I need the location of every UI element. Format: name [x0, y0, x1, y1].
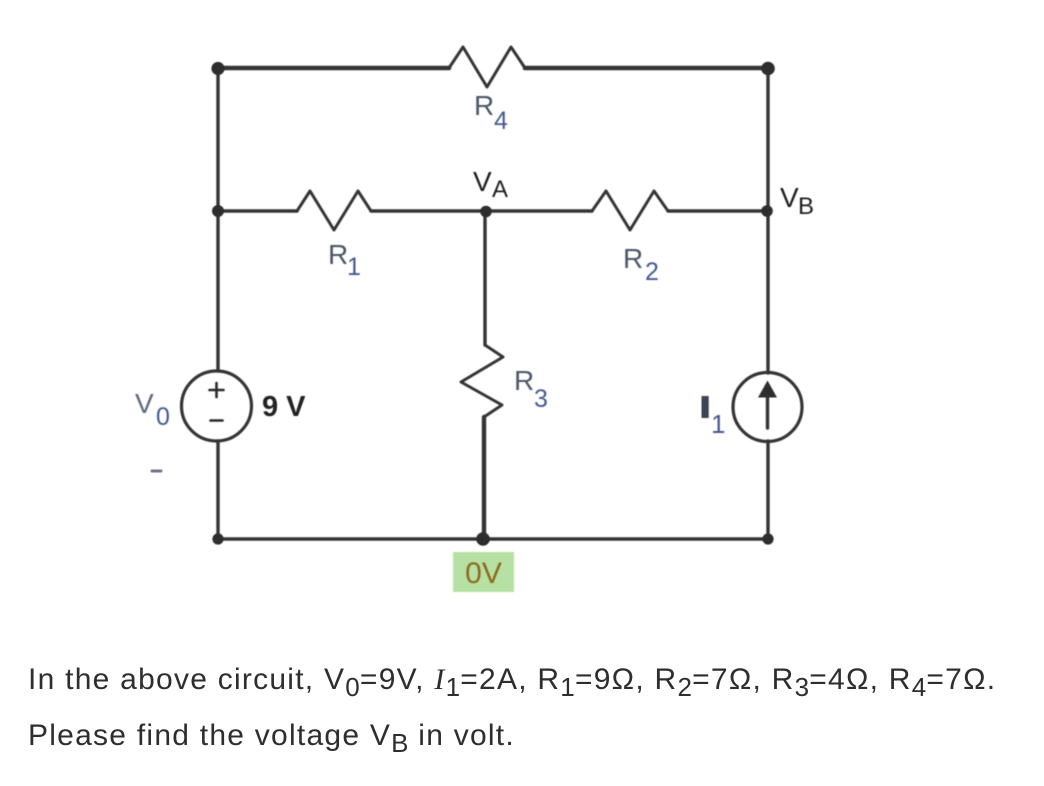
node middle-left	[212, 205, 224, 217]
svg-text:A: A	[492, 176, 508, 203]
svg-text:9 V: 9 V	[262, 391, 306, 423]
svg-text:2: 2	[645, 258, 659, 286]
svg-text:R: R	[474, 90, 494, 121]
label node VA	[473, 166, 508, 203]
current source I1 arrow shaft	[766, 396, 769, 428]
svg-text:B: B	[798, 193, 814, 220]
resistor R3	[461, 345, 503, 417]
node bottom-center	[476, 532, 490, 546]
svg-text:0V: 0V	[465, 557, 502, 590]
svg-text:R: R	[328, 239, 348, 270]
svg-text:0: 0	[156, 403, 170, 431]
external minus mark below V0 label	[152, 470, 161, 473]
resistor R2	[592, 191, 668, 230]
svg-text:3: 3	[534, 385, 548, 413]
node A	[480, 206, 492, 218]
svg-text:1: 1	[347, 253, 361, 281]
wire top rail right segment	[525, 66, 768, 71]
wire R3 to bottom	[482, 417, 486, 539]
plus sign of V0	[210, 383, 224, 397]
svg-text:R: R	[514, 365, 534, 396]
label R2	[623, 243, 659, 286]
label R3	[514, 365, 548, 413]
wire top rail left segment	[218, 66, 449, 71]
label I1	[702, 396, 726, 439]
minus sign of V0	[211, 419, 223, 422]
wire left vertical lower	[216, 441, 219, 539]
node bottom-right	[762, 533, 773, 544]
svg-text:1: 1	[711, 409, 725, 439]
svg-text:R: R	[623, 243, 643, 274]
label V0	[135, 388, 170, 431]
wire right vertical upper	[766, 68, 769, 373]
label R4	[474, 90, 508, 135]
wire VA to R3	[483, 211, 486, 345]
svg-text:4: 4	[494, 107, 508, 135]
svg-text:V: V	[780, 182, 799, 213]
resistor R1	[297, 191, 371, 230]
resistor R4	[449, 47, 525, 87]
node bottom-left	[212, 533, 223, 544]
wire middle rail left segment	[218, 209, 297, 212]
node 0V ground label	[453, 552, 514, 592]
wire middle rail right segment	[668, 209, 768, 212]
voltage source V0 circle	[182, 371, 252, 441]
node top-right	[761, 62, 775, 76]
current source I1 circle	[733, 373, 802, 442]
current source I1 arrow head	[758, 381, 777, 398]
svg-text:V: V	[473, 166, 492, 197]
svg-text:V: V	[135, 388, 154, 419]
label R1	[328, 239, 361, 281]
label node VB	[780, 182, 814, 220]
wire right vertical lower	[766, 441, 769, 539]
node top-left	[211, 62, 224, 75]
node B	[761, 205, 773, 217]
wire bottom rail	[218, 537, 768, 540]
wire middle rail center segment	[371, 209, 592, 212]
wire left vertical upper	[216, 68, 219, 371]
